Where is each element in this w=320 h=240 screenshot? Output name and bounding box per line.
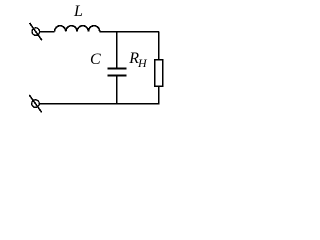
svg-text:L: L <box>73 3 83 20</box>
svg-text:C: C <box>90 51 101 68</box>
wire capacitor branch upper <box>116 32 118 69</box>
wire top from inductor to right branch <box>100 31 159 33</box>
capacitor C top plate <box>107 68 126 70</box>
wire right branch lower <box>158 86 160 104</box>
wire right branch upper <box>158 32 160 60</box>
capacitor C bottom plate <box>107 75 126 77</box>
wire top from terminal to inductor <box>40 31 55 33</box>
terminal input bottom <box>29 95 41 112</box>
resistor RH body <box>155 60 163 86</box>
svg-text:H: H <box>137 56 148 70</box>
wire bottom <box>39 103 159 105</box>
inductor L <box>55 26 100 32</box>
terminal input top <box>30 23 42 40</box>
wire capacitor branch lower <box>116 76 118 104</box>
